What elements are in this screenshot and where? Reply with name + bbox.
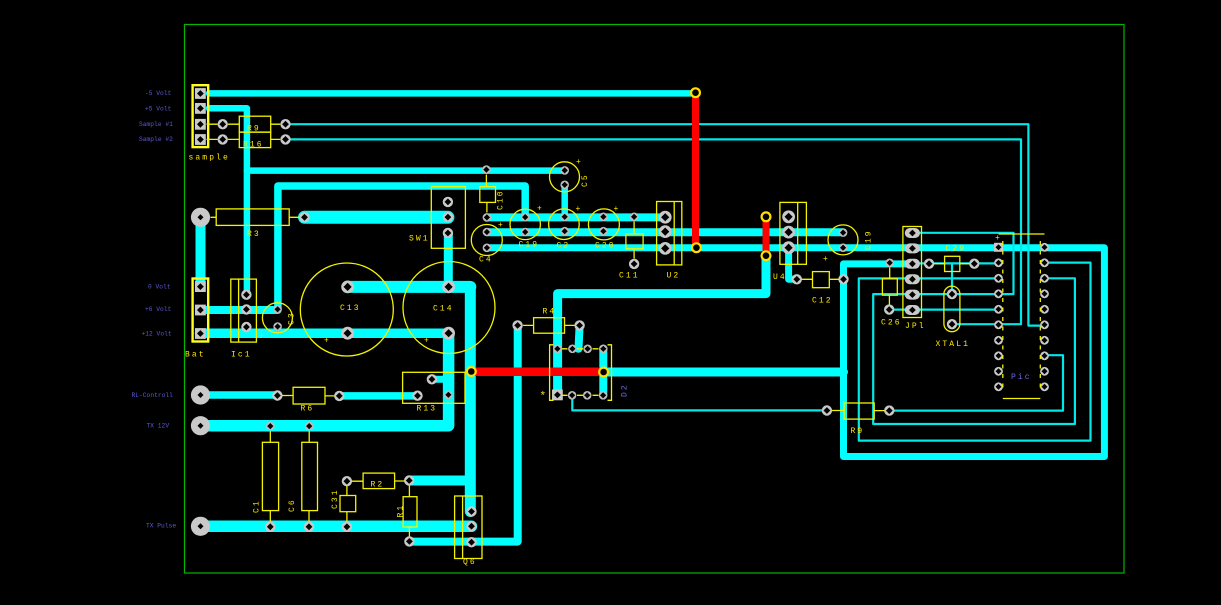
svg-text:R1: R1 <box>397 504 406 518</box>
svg-text:U4: U4 <box>773 273 787 282</box>
svg-text:Sample #2: Sample #2 <box>139 136 173 143</box>
svg-text:0 Volt: 0 Volt <box>148 284 171 291</box>
svg-text:RL-Controll: RL-Controll <box>132 392 174 399</box>
svg-text:R6: R6 <box>301 405 315 414</box>
svg-text:R13: R13 <box>417 405 438 414</box>
svg-text:R16: R16 <box>243 141 264 150</box>
svg-text:Sample #1: Sample #1 <box>139 121 173 128</box>
svg-text:Pic: Pic <box>1011 373 1032 382</box>
svg-text:R9: R9 <box>247 125 261 134</box>
svg-text:R4: R4 <box>543 308 557 317</box>
svg-text:C1: C1 <box>253 499 262 513</box>
svg-text:Ic1: Ic1 <box>231 351 252 360</box>
svg-text:XTAL1: XTAL1 <box>936 340 971 349</box>
svg-text:C13: C13 <box>340 304 361 313</box>
svg-text:C4: C4 <box>479 256 493 265</box>
svg-text:+: + <box>823 255 830 264</box>
svg-text:R3: R3 <box>247 230 261 239</box>
svg-text:Q6: Q6 <box>463 558 477 567</box>
svg-text:+: + <box>324 337 331 346</box>
svg-text:C6: C6 <box>288 498 297 512</box>
svg-text:C12: C12 <box>812 297 833 306</box>
svg-text:+: + <box>424 337 431 346</box>
svg-text:R2: R2 <box>371 481 385 490</box>
svg-text:+12 Volt: +12 Volt <box>142 331 172 338</box>
svg-text:C26: C26 <box>881 319 902 328</box>
svg-text:SW1: SW1 <box>409 235 430 244</box>
svg-text:C2: C2 <box>557 242 571 251</box>
svg-text:+: + <box>259 332 266 341</box>
svg-text:+: + <box>576 205 583 214</box>
svg-text:R9: R9 <box>851 427 865 436</box>
svg-text:C29: C29 <box>946 245 967 254</box>
svg-text:C5: C5 <box>581 173 590 187</box>
svg-text:+6 Volt: +6 Volt <box>145 306 172 313</box>
svg-text:*: * <box>540 391 549 403</box>
svg-text:C31: C31 <box>331 488 340 509</box>
svg-text:C20: C20 <box>595 242 616 251</box>
svg-text:C3: C3 <box>288 311 297 325</box>
svg-text:+: + <box>614 205 621 214</box>
svg-text:C11: C11 <box>619 272 640 281</box>
svg-text:+: + <box>995 234 1002 243</box>
svg-text:C10: C10 <box>497 189 506 210</box>
svg-text:C14: C14 <box>433 305 454 314</box>
svg-text:-5 Volt: -5 Volt <box>145 90 172 97</box>
svg-text:TX Pulse: TX Pulse <box>146 523 176 530</box>
svg-text:D2: D2 <box>621 383 630 397</box>
svg-text:+: + <box>498 221 505 230</box>
svg-text:+: + <box>576 158 583 167</box>
svg-text:C19: C19 <box>519 241 540 250</box>
svg-text:+5 Volt: +5 Volt <box>145 106 172 113</box>
svg-text:JPl: JPl <box>905 322 926 331</box>
svg-text:TX 12V: TX 12V <box>147 423 170 430</box>
svg-text:Bat: Bat <box>185 351 206 360</box>
svg-text:C19: C19 <box>865 229 874 250</box>
svg-text:+: + <box>537 205 544 214</box>
svg-text:U2: U2 <box>667 272 681 281</box>
svg-text:sample: sample <box>189 154 230 163</box>
